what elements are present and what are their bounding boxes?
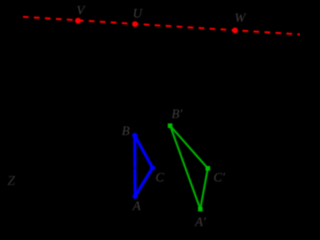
svg-text:U: U xyxy=(133,6,144,21)
svg-text:V: V xyxy=(77,2,87,17)
svg-text:A: A xyxy=(132,198,141,213)
svg-text:B′: B′ xyxy=(172,106,183,121)
svg-text:C′: C′ xyxy=(214,169,226,184)
svg-text:A′: A′ xyxy=(194,214,206,229)
svg-text:C: C xyxy=(156,169,165,184)
svg-text:W: W xyxy=(235,10,247,25)
svg-text:B: B xyxy=(122,123,130,138)
svg-text:Z: Z xyxy=(8,173,16,188)
